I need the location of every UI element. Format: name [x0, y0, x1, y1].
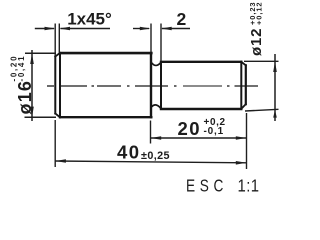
chamfer diagonal top-left: [55, 53, 60, 57]
dimension Ø16 extension line bottom: [25, 116, 57, 118]
dimension 20 right arrow: [236, 136, 247, 140]
dimension 1x45 extension line A: [54, 24, 56, 57]
dimension Ø12 top arrow: [273, 61, 277, 72]
groove (undercut) curves: [152, 62, 161, 108]
dimension Ø16 label: [10, 55, 36, 115]
svg-text:+0,12: +0,12: [254, 2, 263, 25]
svg-text:-0,1: -0,1: [204, 126, 224, 137]
right end face: [245, 65, 247, 104]
groove right wall: [160, 62, 162, 109]
top edge Ø12: [161, 61, 241, 63]
dimension 20 extension line left: [150, 121, 152, 144]
dimension Ø12 label: [248, 2, 265, 56]
dimension 40 left arrow: [55, 159, 66, 163]
dimension 2 line right segment: [162, 28, 190, 30]
dimension 1x45 left arrow: [45, 27, 56, 31]
dimension 40 line: [55, 161, 246, 163]
chamfer diagonal bottom-right: [241, 104, 246, 109]
dimension 1x45 right arrow: [59, 27, 70, 31]
bottom edge Ø12: [161, 108, 241, 110]
dimension Ø12 line: [274, 54, 276, 121]
dimension 20 line: [151, 137, 247, 139]
dimension 20 left arrow: [151, 136, 162, 140]
svg-text:ø12: ø12: [248, 28, 265, 56]
step face: [150, 53, 152, 117]
dimension 1x45 extension line B: [58, 24, 60, 53]
dimension Ø16 line: [31, 50, 33, 121]
scale note ESC: [186, 177, 228, 196]
dimension 1x45 line right segment: [61, 28, 111, 30]
dimension 2 extension line B: [160, 24, 162, 62]
dimension Ø12 extension line top: [244, 60, 279, 62]
dimension 1x45 line left segment: [35, 28, 54, 30]
scale note 1:1: [238, 176, 260, 195]
dimension 20 extension line right: [246, 113, 248, 169]
dimension 2 right arrow: [161, 27, 172, 31]
right chamfer junction line: [240, 62, 242, 109]
chamfer diagonal bottom-left: [55, 114, 60, 118]
bottom edge Ø16: [60, 116, 151, 118]
shaft Ø16 section outline: [55, 53, 151, 117]
dimension Ø16 bottom arrow: [30, 107, 34, 118]
svg-text:-0,41: -0,41: [17, 55, 26, 82]
svg-text:40: 40: [117, 142, 141, 163]
dimension Ø12 bottom arrow: [273, 110, 277, 118]
svg-text:ø16: ø16: [15, 80, 35, 115]
dimension Ø16 extension line top: [25, 52, 56, 54]
svg-text:1:1: 1:1: [238, 176, 260, 195]
svg-text:±0,25: ±0,25: [141, 150, 170, 162]
dimension 40 right arrow: [236, 161, 247, 165]
dimension 2 extension line A: [150, 24, 152, 53]
chamfer diagonal top-right: [241, 62, 246, 66]
dimension Ø12 extension line bottom: [245, 109, 279, 111]
svg-text:1x45°: 1x45°: [67, 10, 112, 29]
svg-text:20: 20: [178, 118, 202, 139]
dimension 2 left arrow: [140, 27, 151, 31]
svg-text:2: 2: [177, 9, 187, 29]
shaft Ø12 section outline: [161, 62, 246, 109]
left end face: [54, 57, 56, 114]
chamfer junction line: [59, 53, 61, 117]
top edge Ø16: [60, 52, 151, 55]
svg-text:ESC: ESC: [186, 177, 228, 196]
dimension 2 line left segment: [133, 28, 149, 30]
dimension 40 extension line left: [54, 120, 56, 167]
centerline: [47, 85, 258, 87]
dimension Ø16 top arrow: [30, 53, 34, 64]
